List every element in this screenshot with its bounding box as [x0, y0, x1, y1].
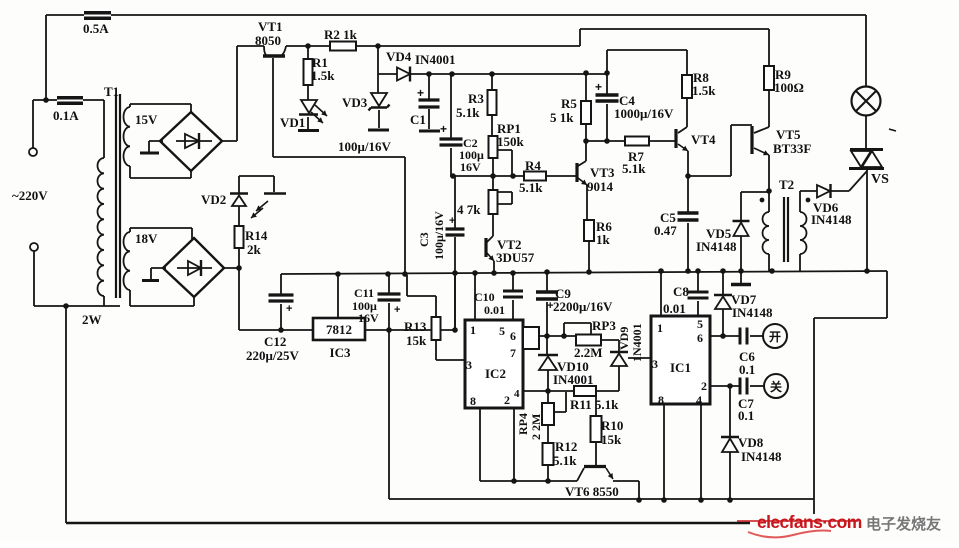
wire: lamp to triac [865, 115, 867, 148]
transformer T1 primary winding [103, 100, 105, 306]
pushbutton OFF (guan) [750, 385, 764, 387]
svg-text:VT4: VT4 [691, 132, 716, 147]
svg-text:电子发烧友: 电子发烧友 [866, 515, 941, 533]
wire: RP3 to VD9 [601, 340, 619, 352]
svg-text:16V: 16V [460, 160, 481, 174]
svg-text:1N4001: 1N4001 [630, 323, 644, 362]
svg-text:2: 2 [701, 379, 707, 393]
capacitor C8 0.01 [697, 271, 699, 316]
svg-text:3: 3 [466, 358, 472, 372]
potentiometer RP3 2.2M [576, 335, 601, 346]
terminal: AC input upper [32, 100, 34, 148]
node: RP3 loop tap [561, 333, 567, 339]
svg-text:IN4001: IN4001 [553, 372, 593, 387]
wire: VT1 emitter run to +12V rail [273, 58, 405, 273]
svg-text:C1: C1 [410, 112, 426, 127]
svg-text:6: 6 [510, 329, 516, 343]
node: C11 bottom [386, 327, 392, 333]
svg-text:IC3: IC3 [330, 345, 351, 360]
node: C2/C3 tap on base wire [450, 173, 456, 179]
node: C2 tap [449, 71, 455, 77]
svg-text:+: + [417, 86, 424, 100]
svg-text:R10: R10 [601, 418, 623, 433]
bridge rectifier UR1 (15V) [160, 112, 222, 171]
svg-text:elecfans·com: elecfans·com [757, 512, 862, 532]
node: rail taps [335, 271, 341, 277]
svg-text:1: 1 [657, 321, 663, 335]
resistor R3 5.1k [491, 74, 493, 136]
svg-text:IN4148: IN4148 [741, 449, 782, 464]
node: VD4 cathode / C1 [426, 71, 432, 77]
diode VD5 IN4148 [741, 191, 769, 193]
svg-text:4: 4 [514, 388, 520, 400]
capacitor C5 0.47 [687, 176, 689, 271]
wire: 15V winding to bridge 1 [130, 104, 191, 178]
bridge rectifier UR2 (18V) [163, 238, 224, 297]
wire: bridge 1 output to VT1 collector [222, 46, 264, 141]
svg-text:7812: 7812 [326, 322, 352, 337]
svg-text:5: 5 [697, 317, 703, 331]
svg-text:R11 5.1k: R11 5.1k [570, 397, 619, 412]
4.7k wiper loop [498, 192, 513, 204]
wire: long bottom return conductor [66, 522, 750, 525]
node: R5 tap [583, 70, 589, 76]
node: VD10 bottom [545, 388, 551, 394]
triac VS [850, 148, 883, 151]
svg-text:0.47: 0.47 [654, 223, 677, 238]
node: fuse junction [43, 97, 49, 103]
IC2 pin 5-6 stub box [523, 327, 539, 349]
wire: left outer return conductor [65, 306, 67, 523]
svg-text:C12: C12 [264, 334, 286, 349]
svg-text:2W: 2W [82, 312, 102, 327]
svg-text:关: 关 [770, 379, 782, 394]
+12V rail [281, 271, 887, 274]
capacitor C12 220u/25V [280, 274, 282, 330]
node: pin2 drop junction [511, 478, 517, 484]
capacitor C3 100u/16V (rotated labels) [454, 176, 456, 330]
IC2 box [465, 320, 523, 408]
svg-text:15k: 15k [406, 333, 427, 348]
svg-text:IN4148: IN4148 [732, 305, 773, 320]
svg-text:C8: C8 [673, 284, 689, 299]
node: ground bus taps [661, 497, 667, 503]
svg-text:VD4: VD4 [386, 49, 412, 64]
svg-text:16V: 16V [358, 311, 379, 325]
resistor R2 1k [330, 42, 356, 51]
resistor R13 15k [407, 275, 436, 317]
resistor R4 5.1k [524, 172, 546, 181]
node: neutral junction [63, 303, 69, 309]
svg-text:5.1k: 5.1k [553, 453, 577, 468]
RP4 wiper [554, 392, 566, 412]
svg-text:1.5k: 1.5k [692, 83, 716, 98]
wire: IC1 pin6 line [710, 335, 740, 337]
bridge 2 common stub [151, 268, 166, 279]
wire: VT5 emitter to T2 primary [768, 155, 770, 191]
svg-text:8050: 8050 [255, 33, 281, 48]
wire: lamp to top conductor [865, 15, 867, 87]
svg-text:220μ/25V: 220μ/25V [246, 348, 299, 363]
svg-text:BT33F: BT33F [773, 141, 811, 156]
svg-text:R4: R4 [525, 158, 541, 173]
wire: bridge 2 output to regulator input [224, 268, 239, 330]
capacitor C10 0.01 [512, 273, 514, 320]
transformer T2 core [784, 197, 788, 262]
svg-text:2.2M: 2.2M [574, 345, 603, 360]
diode VD8 IN4148 [729, 386, 731, 437]
svg-text:+: + [595, 80, 602, 94]
wire: IC1 pin2 line [710, 385, 740, 387]
svg-text:6: 6 [697, 331, 703, 345]
VD2 return pad [264, 192, 286, 195]
svg-text:R3: R3 [468, 91, 484, 106]
pushbutton ON (kai) [750, 335, 763, 337]
wire: IC1 pin1 to rail [660, 271, 662, 316]
resistor R12 5.1k [547, 425, 549, 481]
diode VD10 IN4001 [546, 336, 548, 355]
wire: VT1 base feed from R2 node [286, 45, 580, 47]
svg-text:8: 8 [470, 394, 476, 408]
IC1 box [651, 316, 710, 404]
svg-text:100μ/16V: 100μ/16V [432, 211, 446, 260]
resistor R11 5.1k [574, 386, 596, 396]
wire: left drop from top conductor [45, 15, 47, 100]
wire: 7812 ground pin to rail [337, 274, 339, 318]
wire: +V jog to R9 [580, 29, 769, 66]
svg-text:R5: R5 [561, 96, 577, 111]
svg-text:100Ω: 100Ω [774, 80, 804, 95]
svg-text:1: 1 [470, 323, 476, 337]
svg-text:9014: 9014 [587, 179, 614, 194]
svg-text:VT6 8550: VT6 8550 [565, 484, 619, 499]
node: T2 primary top [766, 188, 772, 194]
node: output-rail corner [452, 327, 458, 333]
wire: mains top conductor [46, 14, 866, 16]
common stub below rail [740, 271, 742, 283]
svg-text:VT5: VT5 [776, 127, 801, 142]
node: R3 tap [489, 71, 495, 77]
ground link wire [480, 480, 577, 482]
svg-text:R2 1k: R2 1k [324, 27, 358, 42]
wire: regulator input [239, 329, 313, 331]
resistor R9 100ohm [764, 66, 774, 90]
svg-text:0.01: 0.01 [484, 303, 505, 317]
capacitor C6 0.1 [740, 328, 747, 345]
node: VD8 top [727, 383, 733, 389]
svg-text:100μ/16V: 100μ/16V [338, 139, 391, 154]
diode VD6 IN4148 [800, 190, 817, 192]
node: VD7 bottom [720, 333, 726, 339]
resistor R14 2k [238, 206, 240, 268]
svg-text:15k: 15k [601, 432, 622, 447]
svg-text:VT3: VT3 [590, 165, 615, 180]
fuse FU1 0.5A [84, 11, 111, 20]
svg-text:0.5A: 0.5A [83, 21, 109, 36]
wire: VT4 emitter to VT5 base [688, 125, 752, 176]
svg-text:IN4148: IN4148 [696, 239, 737, 254]
diode VD9 1N4001 (rotated labels) [610, 351, 628, 354]
svg-text:+: + [286, 303, 292, 315]
svg-text:+: + [440, 122, 447, 136]
node: C12 bottom [278, 327, 284, 333]
svg-text:18V: 18V [135, 231, 158, 246]
svg-text:VD2: VD2 [201, 192, 226, 207]
svg-text:2: 2 [504, 393, 510, 407]
node: C9/VD10 tap [544, 333, 550, 339]
resistor R8 1.5k [682, 75, 692, 98]
svg-text:C11: C11 [354, 286, 374, 300]
svg-text:5.1k: 5.1k [622, 161, 646, 176]
wire: R4 to VT3 base [546, 175, 577, 177]
wire: regulator output [365, 275, 455, 330]
node: R2 right / VD4 junction [375, 43, 381, 49]
wire: VD9 to IC1 pin3 [628, 357, 651, 359]
svg-text:IN4001: IN4001 [415, 52, 455, 67]
svg-text:4 7k: 4 7k [457, 202, 481, 217]
node: R12 bottom [545, 478, 551, 484]
T2 primary polarity dot [760, 198, 765, 203]
node: VT4 emitter junction [685, 173, 691, 179]
wire: IC2 pin6 line [539, 335, 576, 337]
svg-text:T2: T2 [779, 177, 794, 192]
svg-text:150k: 150k [497, 134, 525, 149]
svg-text:5.1k: 5.1k [456, 105, 480, 120]
LED VD1 [301, 100, 317, 113]
svg-text:0.1: 0.1 [738, 408, 754, 423]
svg-text:R13: R13 [404, 319, 427, 334]
svg-text:5.1k: 5.1k [519, 180, 543, 195]
resistor R5 5.1k [585, 73, 587, 141]
wire: 18V winding to bridge 2 [130, 228, 194, 306]
wire: C4/R8 top bridge [607, 50, 687, 75]
node: C4 bottom junction [604, 138, 610, 144]
wire: VD6 to triac gate [831, 171, 867, 191]
wire: IC1 pin8 and pin4 drops [664, 404, 701, 500]
capacitor C11 100u 16V [388, 274, 390, 330]
svg-text:2 2M: 2 2M [529, 414, 543, 440]
wire: base line to VT4 [586, 140, 676, 142]
svg-text:IC1: IC1 [670, 360, 691, 375]
svg-text:7: 7 [510, 346, 516, 360]
svg-text:5 1k: 5 1k [550, 110, 574, 125]
svg-text:15V: 15V [135, 112, 158, 127]
svg-text:C3: C3 [417, 232, 431, 247]
phototransistor VT2 3DU57 [492, 214, 494, 236]
svg-text:C10: C10 [474, 290, 495, 304]
svg-text:1k: 1k [596, 232, 611, 247]
svg-text:VS: VS [871, 172, 889, 187]
node: R14 / bridge 2 output [236, 265, 242, 271]
RP1 wiper [498, 150, 513, 176]
svg-text:0.1A: 0.1A [53, 108, 79, 123]
ground bus wire [389, 498, 814, 500]
resistor R7 5.1k [625, 137, 649, 146]
svg-text:1.5k: 1.5k [311, 68, 335, 83]
svg-text:RP4: RP4 [516, 413, 530, 435]
svg-text:R12: R12 [555, 439, 577, 454]
wire: neutral return to bottom rail [34, 251, 120, 306]
RP3 wiper loop [564, 323, 591, 336]
svg-text:VD3: VD3 [342, 95, 368, 110]
wire: IC2 pin8/pin2 drops [480, 408, 514, 481]
node: RP1 lower junction [490, 173, 496, 179]
node: VT6 emitter drop [636, 497, 642, 503]
+V wire to R4 and VT3 base [450, 175, 524, 177]
svg-text:VD9: VD9 [617, 327, 631, 350]
svg-text:3DU57: 3DU57 [496, 250, 535, 265]
capacitor C4 1000u/16V [606, 73, 608, 141]
stray mark [889, 129, 896, 131]
node: VT1 base / R1 junction [305, 43, 311, 49]
capacitor C9 2200u/16V [546, 272, 548, 336]
svg-text:5: 5 [499, 324, 505, 338]
signal lamp [852, 87, 881, 116]
svg-text:VD8: VD8 [738, 435, 764, 450]
svg-text:1000μ/16V: 1000μ/16V [614, 106, 674, 121]
svg-text:+: + [394, 304, 400, 316]
wire: C11 node down to ground bus [388, 330, 390, 499]
transformer T2 secondary winding [799, 191, 801, 271]
svg-text:2k: 2k [247, 242, 262, 257]
T2 secondary polarity dot [806, 198, 811, 203]
svg-text:R14: R14 [245, 228, 268, 243]
bridge 1 common stub [149, 141, 163, 152]
svg-text:RP3: RP3 [592, 318, 616, 333]
capacitor C7 0.1 [740, 378, 747, 395]
svg-text:2200μ/16V: 2200μ/16V [553, 299, 613, 314]
terminal: AC input lower [30, 243, 38, 251]
svg-text:+: + [449, 215, 455, 227]
node: C4 tap [604, 70, 610, 76]
wire: rail right return [814, 271, 887, 514]
svg-text:3: 3 [652, 357, 658, 371]
svg-text:VD1: VD1 [280, 115, 305, 130]
wire: IC2 pin1 to rail [474, 273, 476, 320]
capacitor C1 100u/16V [428, 74, 430, 129]
svg-text:IN4148: IN4148 [811, 212, 852, 227]
fuse FU2 0.1A [33, 99, 104, 101]
wire: IC2 pin4 line [523, 390, 619, 392]
wire: R13 to IC2 pin3 [436, 340, 465, 360]
svg-text:0.1: 0.1 [739, 362, 755, 377]
transformer T2 primary winding [768, 191, 770, 271]
resistor R1 1.5k [307, 46, 309, 100]
resistor R6 1k [584, 220, 594, 241]
svg-text:VT1: VT1 [258, 19, 283, 34]
transformer T1 core [116, 94, 120, 298]
resistor R10 15k [595, 396, 597, 465]
capacitor C2 100u 16V [450, 74, 452, 176]
regulator IC3 7812 [313, 318, 365, 340]
wire: triac to common rail [866, 170, 868, 271]
svg-text:~220V: ~220V [12, 188, 48, 203]
node: R5/VT3 collector junction [583, 138, 589, 144]
potentiometer RP4 2.2M (rotated labels) [547, 391, 549, 403]
svg-text:开: 开 [769, 330, 781, 344]
svg-text:0.01: 0.01 [663, 301, 686, 316]
diode VD7 IN4148 [722, 271, 724, 295]
node: RP1 wiper junction [510, 173, 516, 179]
svg-text:IC2: IC2 [485, 366, 506, 381]
